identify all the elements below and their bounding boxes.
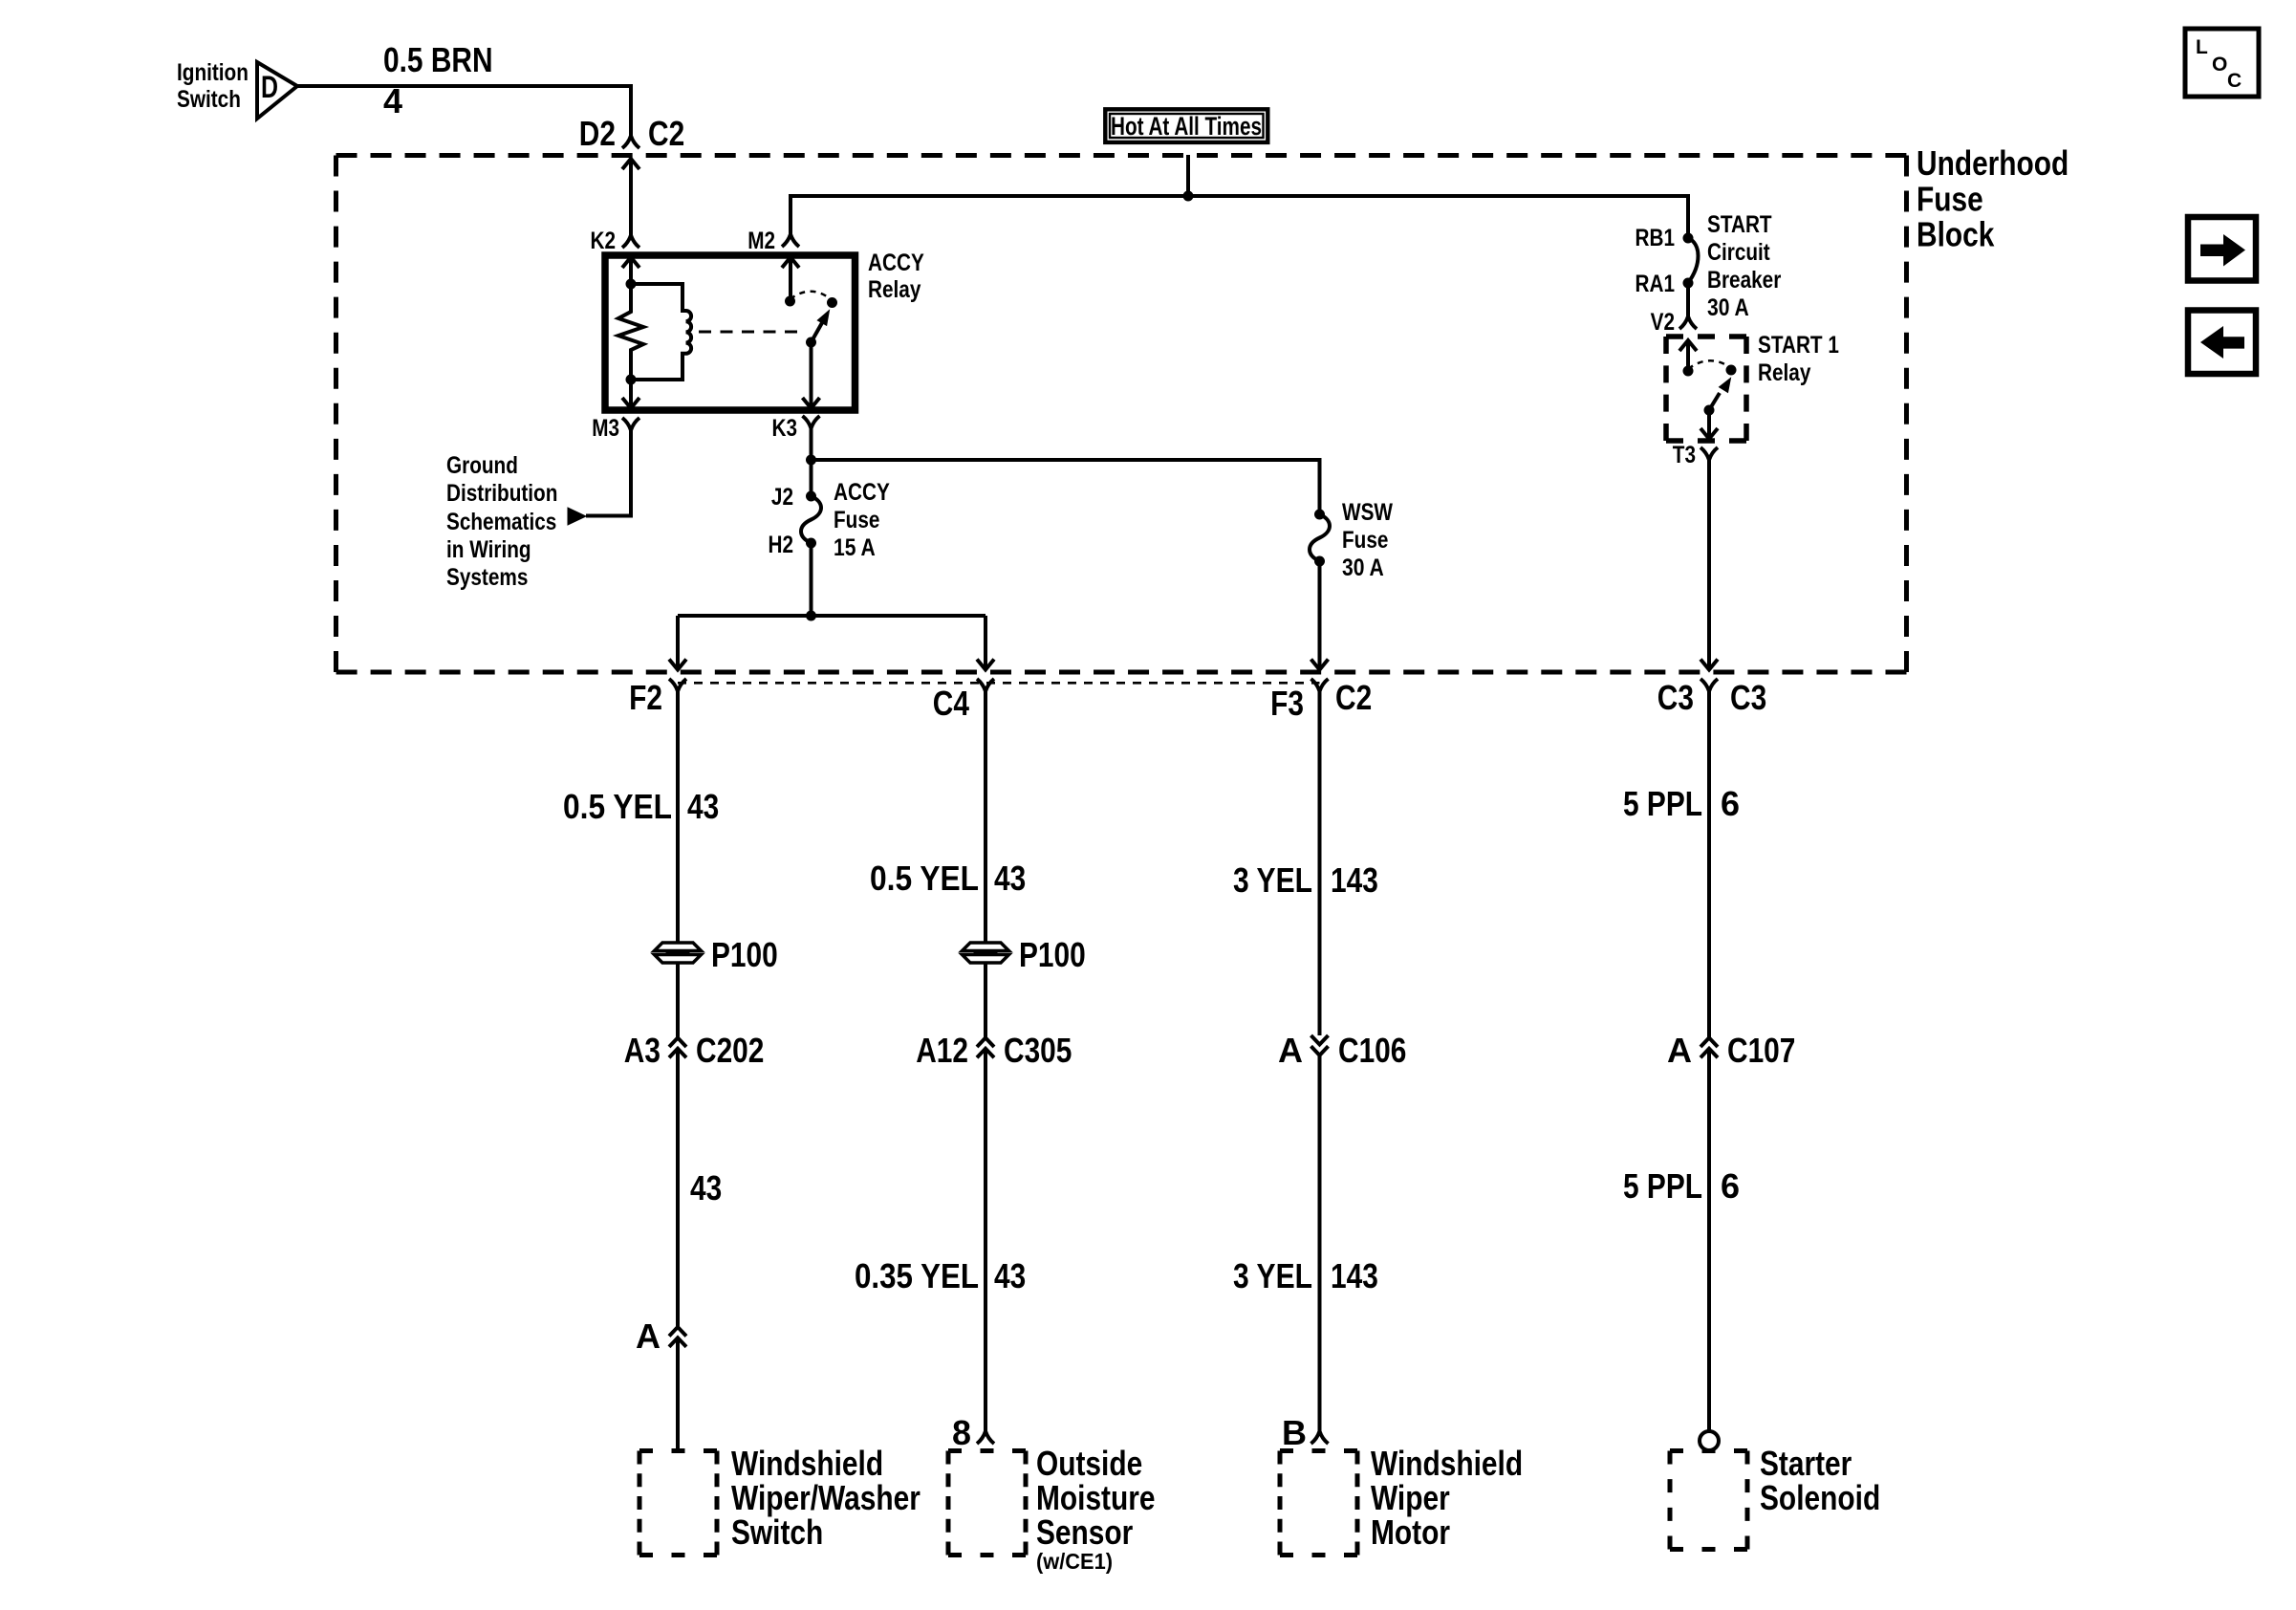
svg-text:B: B	[1282, 1413, 1307, 1452]
svg-text:0.5 YEL: 0.5 YEL	[563, 787, 672, 826]
svg-text:F3: F3	[1270, 684, 1304, 723]
svg-text:M3: M3	[592, 415, 619, 442]
wire F2 to P100	[676, 691, 680, 943]
label ACCY Fuse 15 A	[834, 479, 890, 561]
svg-text:0.5 BRN: 0.5 BRN	[383, 40, 493, 79]
svg-text:5 PPL: 5 PPL	[1623, 784, 1702, 823]
wire C202 to connector A	[676, 1049, 680, 1327]
svg-text:Wiper/Washer: Wiper/Washer	[731, 1478, 921, 1517]
ACCY fuse element	[801, 496, 821, 543]
connector pin 8 at moisture sensor	[952, 1413, 994, 1452]
svg-text:C106: C106	[1338, 1031, 1406, 1070]
node switch fixed contact	[785, 296, 795, 307]
svg-text:0.5 YEL: 0.5 YEL	[870, 859, 979, 898]
relay resistor	[618, 284, 643, 380]
Hot At All Times callout box	[1105, 109, 1267, 142]
node coil top	[626, 279, 637, 290]
wire T3 to C3 drop	[1700, 460, 1718, 670]
wire C106 to wiper motor	[1318, 1055, 1322, 1431]
svg-text:6: 6	[1721, 784, 1740, 823]
starter solenoid dashed box	[1670, 1448, 1747, 1453]
svg-text:Starter: Starter	[1760, 1444, 1852, 1483]
svg-text:Ground: Ground	[446, 452, 518, 479]
label Windshield Wiper/Washer Switch	[731, 1444, 921, 1552]
svg-text:0.35 YEL: 0.35 YEL	[855, 1256, 979, 1295]
wire K3 down to ACCY fuse	[810, 428, 813, 496]
svg-text:in Wiring: in Wiring	[446, 536, 531, 563]
svg-text:30 A: 30 A	[1707, 294, 1749, 321]
wire branch to WSW fuse	[812, 460, 1320, 514]
wire label 3 YEL 143	[1233, 860, 1378, 900]
svg-text:J2: J2	[771, 484, 793, 511]
svg-text:ACCY: ACCY	[834, 479, 890, 506]
label ACCY Relay	[868, 250, 924, 303]
svg-text:D2: D2	[579, 114, 616, 153]
connector T3	[1673, 442, 1718, 468]
relay actuation dashed link	[699, 331, 801, 334]
windshield wiper motor dashed box	[1280, 1448, 1357, 1453]
connector A3 C202	[624, 1031, 765, 1070]
svg-text:A12: A12	[916, 1031, 968, 1070]
svg-text:Outside: Outside	[1036, 1444, 1142, 1483]
underhood fuse block boundary dashed box	[336, 153, 1907, 158]
node START 1 alternate contact	[1726, 365, 1737, 376]
grommet P100 left	[655, 935, 778, 974]
svg-text:Moisture: Moisture	[1036, 1478, 1156, 1517]
connector A C106	[1278, 1031, 1406, 1070]
WSW fuse bottom terminal	[1314, 556, 1325, 567]
label Ignition Switch	[177, 59, 249, 113]
svg-text:Motor: Motor	[1371, 1512, 1450, 1552]
hyperlink icon arrow left	[2188, 311, 2256, 375]
connector K3 at relay socket	[772, 415, 820, 442]
svg-text:Hot At All Times: Hot At All Times	[1111, 112, 1262, 141]
label Outside Moisture Sensor w/CE1	[1036, 1444, 1156, 1574]
svg-text:RB1: RB1	[1635, 225, 1676, 251]
svg-text:WSW: WSW	[1342, 499, 1393, 526]
connector pin B at wiper motor	[1282, 1413, 1329, 1452]
wire C305 to moisture sensor	[984, 1049, 987, 1431]
svg-text:43: 43	[994, 859, 1026, 898]
WSW fuse element	[1310, 514, 1330, 561]
svg-text:C2: C2	[1335, 678, 1372, 717]
wire label 0.5 YEL 43 column2	[870, 859, 1026, 898]
label START Circuit Breaker 30 A	[1707, 211, 1782, 321]
svg-text:C4: C4	[933, 684, 969, 723]
svg-text:5 PPL: 5 PPL	[1623, 1166, 1702, 1206]
wire from Hot At All Times to bus	[1186, 155, 1190, 196]
svg-text:30 A: 30 A	[1342, 555, 1384, 581]
svg-text:Relay: Relay	[868, 276, 921, 303]
svg-text:Solenoid: Solenoid	[1760, 1478, 1880, 1517]
wire label 5 PPL 6 lower	[1623, 1166, 1740, 1206]
wire H2 to distribution node	[810, 543, 813, 616]
START 1 relay input pin arrow	[1679, 340, 1697, 371]
svg-text:K2: K2	[591, 228, 617, 254]
bus wire hot feed	[791, 196, 1688, 238]
node distribution junction	[806, 611, 816, 621]
svg-text:Switch: Switch	[177, 86, 241, 113]
windshield wiper washer switch dashed box	[639, 1448, 717, 1453]
wire label 0.35 YEL 43	[855, 1256, 1026, 1295]
svg-text:A: A	[636, 1316, 661, 1356]
distribution wire to F2 and C4 drops	[678, 614, 986, 618]
relay pin K2 internal	[622, 257, 639, 284]
svg-text:Fuse: Fuse	[1342, 527, 1388, 554]
WSW fuse top terminal	[1314, 510, 1325, 520]
ground distribution reference arrow	[568, 508, 586, 525]
connector F3 C2	[1270, 678, 1372, 723]
svg-text:Wiper: Wiper	[1371, 1478, 1450, 1517]
svg-text:4: 4	[383, 81, 402, 120]
svg-text:P100: P100	[1019, 935, 1086, 974]
node coil bottom	[626, 375, 637, 385]
node switch pivot	[806, 337, 816, 348]
connector V2	[1651, 309, 1697, 336]
wire RA1 to V2	[1686, 283, 1690, 316]
ACCY fuse terminal H2	[769, 532, 817, 558]
svg-text:Breaker: Breaker	[1707, 267, 1782, 294]
svg-text:O: O	[2212, 54, 2227, 76]
svg-text:43: 43	[994, 1256, 1026, 1295]
svg-text:T3: T3	[1673, 442, 1696, 468]
label Starter Solenoid	[1760, 1444, 1880, 1517]
wire C4 to P100	[984, 691, 987, 943]
node switch alternate contact	[827, 297, 837, 308]
relay pin K3 internal	[803, 342, 820, 408]
wire WSW fuse to F3 drop	[1311, 561, 1329, 670]
label START 1 Relay	[1758, 332, 1839, 386]
wire D2 to K2 with pin arrow	[622, 159, 639, 235]
connector C4	[933, 679, 994, 723]
svg-text:Windshield: Windshield	[1371, 1444, 1523, 1483]
connector D2 C2 at fuse block boundary	[579, 114, 684, 153]
svg-text:C2: C2	[648, 114, 684, 153]
svg-text:Relay: Relay	[1758, 359, 1810, 386]
svg-text:M2: M2	[747, 228, 775, 254]
wire 0.5 BRN from ignition switch to D2	[297, 86, 631, 136]
svg-text:143: 143	[1331, 1256, 1378, 1295]
wire A to switch box	[676, 1338, 680, 1450]
relay switch dashed throw arc	[791, 292, 833, 300]
fuse block bottom in-line connector thin dashed line	[678, 682, 1320, 685]
relay coil	[631, 284, 691, 380]
svg-text:Block: Block	[1917, 215, 1995, 254]
svg-text:A: A	[1667, 1031, 1692, 1070]
svg-text:15 A: 15 A	[834, 534, 876, 561]
grommet P100 right	[963, 935, 1086, 974]
connector C3 C3	[1657, 678, 1766, 717]
START 1 switch dashed throw arc	[1688, 360, 1731, 369]
connector M2 at relay socket	[747, 228, 799, 254]
svg-text:C3: C3	[1657, 678, 1694, 717]
svg-text:Systems: Systems	[446, 564, 528, 591]
START 1 output pin arrow	[1700, 410, 1718, 439]
wire C3 to C107	[1707, 691, 1711, 1038]
START circuit breaker terminal RB1	[1635, 225, 1694, 251]
svg-text:Circuit: Circuit	[1707, 239, 1770, 266]
svg-text:START: START	[1707, 211, 1772, 238]
svg-text:A3: A3	[624, 1031, 661, 1070]
svg-text:43: 43	[687, 787, 719, 826]
ignition switch source triangle D	[257, 62, 297, 119]
svg-text:A: A	[1278, 1031, 1303, 1070]
svg-text:3 YEL: 3 YEL	[1233, 1256, 1312, 1295]
svg-text:D: D	[261, 70, 278, 104]
connector A12 C305	[916, 1031, 1072, 1070]
relay pin M2 internal	[782, 257, 799, 301]
relay pin M3 internal	[622, 380, 639, 408]
svg-text:H2: H2	[769, 532, 794, 558]
svg-text:Schematics: Schematics	[446, 509, 556, 535]
svg-text:Sensor: Sensor	[1036, 1512, 1133, 1552]
svg-text:V2: V2	[1651, 309, 1675, 336]
svg-text:C202: C202	[696, 1031, 764, 1070]
connector F2	[629, 678, 686, 717]
svg-text:C305: C305	[1004, 1031, 1072, 1070]
svg-text:F2: F2	[629, 678, 662, 717]
starter solenoid terminal ring	[1700, 1431, 1719, 1450]
svg-text:Switch: Switch	[731, 1512, 823, 1552]
wire label 5 PPL 6	[1623, 784, 1740, 823]
node START 1 fixed contact	[1683, 366, 1694, 377]
svg-text:Windshield: Windshield	[731, 1444, 883, 1483]
svg-text:3 YEL: 3 YEL	[1233, 860, 1312, 900]
svg-text:K3: K3	[772, 415, 798, 442]
svg-text:Distribution: Distribution	[446, 480, 557, 507]
svg-text:L: L	[2196, 36, 2208, 58]
hyperlink icon arrow right	[2188, 217, 2256, 281]
node junction dot on bus	[1183, 191, 1194, 202]
wire label 3 YEL 143 lower	[1233, 1256, 1378, 1295]
label Windshield Wiper Motor	[1371, 1444, 1523, 1552]
svg-text:P100: P100	[711, 935, 778, 974]
label WSW Fuse 30 A	[1342, 499, 1393, 581]
connector A at wiper switch pigtail	[636, 1316, 686, 1356]
svg-text:43: 43	[690, 1168, 722, 1207]
svg-text:Ignition: Ignition	[177, 59, 249, 86]
START circuit breaker terminal RA1	[1635, 271, 1694, 297]
node branch to WSW fuse	[806, 455, 816, 466]
svg-text:143: 143	[1331, 860, 1378, 900]
svg-text:C3: C3	[1730, 678, 1766, 717]
LOC icon box	[2185, 29, 2259, 97]
START 1 switch blade with arrowhead	[1709, 379, 1731, 411]
svg-text:C107: C107	[1727, 1031, 1795, 1070]
svg-text:8: 8	[952, 1413, 971, 1452]
connector M3 at relay socket	[592, 415, 639, 442]
svg-text:Fuse: Fuse	[834, 507, 879, 533]
svg-text:ACCY: ACCY	[868, 250, 924, 276]
wire M3 to ground reference	[586, 430, 631, 516]
svg-text:(w/CE1): (w/CE1)	[1036, 1549, 1113, 1574]
wire P100 to C305	[984, 963, 987, 1038]
relay switch blade with arrowhead	[812, 311, 830, 343]
connector A C107	[1667, 1031, 1795, 1070]
ACCY relay box	[605, 255, 856, 410]
ACCY fuse terminal J2	[771, 484, 816, 511]
wire F3 to C106	[1318, 691, 1322, 1035]
svg-text:START 1: START 1	[1758, 332, 1839, 359]
wire label 0.5 BRN circuit 4	[383, 40, 493, 120]
wire C107 to starter solenoid	[1707, 1049, 1711, 1431]
label Ground Distribution Schematics in Wiring Systems	[446, 452, 557, 591]
wire P100 to C202	[676, 963, 680, 1038]
svg-text:6: 6	[1721, 1166, 1740, 1206]
START circuit breaker element	[1688, 238, 1699, 283]
wire drop to F2	[669, 616, 686, 670]
label Underhood Fuse Block	[1917, 143, 2069, 254]
svg-text:Underhood: Underhood	[1917, 143, 2069, 183]
wire drop to C4	[977, 616, 994, 670]
outside moisture sensor dashed box	[948, 1448, 1026, 1453]
svg-text:Fuse: Fuse	[1917, 180, 1983, 219]
svg-text:RA1: RA1	[1635, 271, 1676, 297]
connector K2 at relay socket	[591, 228, 640, 254]
svg-text:C: C	[2227, 70, 2242, 92]
wire label 0.5 YEL 43	[563, 787, 719, 826]
START 1 relay dashed box	[1666, 334, 1746, 339]
node START 1 switch pivot	[1704, 405, 1715, 416]
